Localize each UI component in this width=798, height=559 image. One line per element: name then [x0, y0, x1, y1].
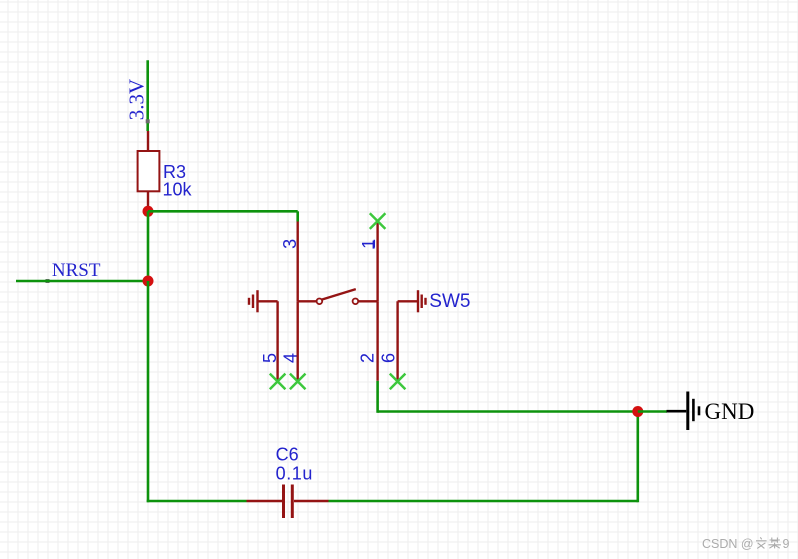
wire corner down to pin 3 — [296, 211, 299, 221]
pin 2 (bottom-right column) — [376, 301, 378, 381]
capacitor C6 — [247, 444, 329, 518]
wire left vertical down to capacitor — [147, 281, 150, 502]
contact circle left — [317, 299, 323, 305]
svg-text:1: 1 — [359, 239, 379, 249]
resistor R3 — [138, 131, 193, 208]
wire bottom horizontal pin2 to GND junction — [378, 410, 638, 413]
svg-text:GND: GND — [705, 399, 755, 424]
svg-text:6: 6 — [379, 353, 399, 363]
wire right vertical up to GND junction — [636, 412, 639, 503]
switch SW5 — [249, 222, 470, 381]
wire NRST horizontal — [16, 280, 148, 283]
pin 6 vertical — [396, 301, 398, 381]
no-connect X pin 6 — [390, 374, 406, 390]
contact stub left — [298, 300, 317, 302]
switch lever — [322, 289, 356, 300]
wire endpoint marker — [146, 119, 150, 123]
junction NRST — [143, 276, 154, 287]
pin 5 horizontal — [258, 300, 278, 302]
junction below R3 — [143, 206, 154, 217]
svg-text:10k: 10k — [163, 180, 193, 200]
wire C6 right to GND corner — [329, 500, 638, 503]
no-connect X pin 5 — [270, 374, 286, 390]
svg-text:CSDN @: CSDN @ — [702, 537, 754, 551]
pin 4 (bottom-left column) — [297, 301, 299, 381]
wire switch pin2 down — [376, 381, 379, 413]
wire left vertical (R3 junction to NRST junction) — [147, 211, 150, 281]
pin 6 actuator bars — [417, 290, 419, 312]
ground GND symbol — [667, 392, 755, 431]
no-connect X pin 4 — [290, 374, 306, 390]
label anchor marker — [46, 279, 50, 283]
contact stub right — [358, 300, 377, 302]
wire 3.3V vertical — [146, 60, 149, 131]
svg-text:3: 3 — [280, 239, 300, 249]
pin 5 vertical — [276, 301, 278, 381]
svg-text:C6: C6 — [276, 444, 299, 464]
wire top horizontal to switch — [148, 210, 298, 213]
pin 5 actuator bars — [248, 298, 250, 305]
svg-text:3.3V: 3.3V — [125, 79, 149, 120]
svg-text:9: 9 — [783, 537, 790, 551]
svg-text:5: 5 — [260, 353, 280, 363]
svg-text:SW5: SW5 — [429, 291, 470, 312]
svg-text:0.1u: 0.1u — [276, 463, 313, 483]
junction GND — [632, 406, 643, 417]
wire bottom horizontal to C6 — [147, 500, 247, 503]
contact circle right — [353, 299, 359, 305]
pin 6 horizontal — [398, 300, 418, 302]
pin 1 (top-right column) — [376, 222, 378, 302]
pin 3 (top-left column) — [297, 222, 299, 302]
svg-text:2: 2 — [358, 353, 378, 363]
svg-text:NRST: NRST — [52, 260, 101, 281]
no-connect X pin 1 — [370, 213, 386, 229]
svg-text:4: 4 — [280, 353, 300, 363]
wire stub to GND symbol — [638, 410, 667, 413]
watermark — [702, 537, 790, 551]
